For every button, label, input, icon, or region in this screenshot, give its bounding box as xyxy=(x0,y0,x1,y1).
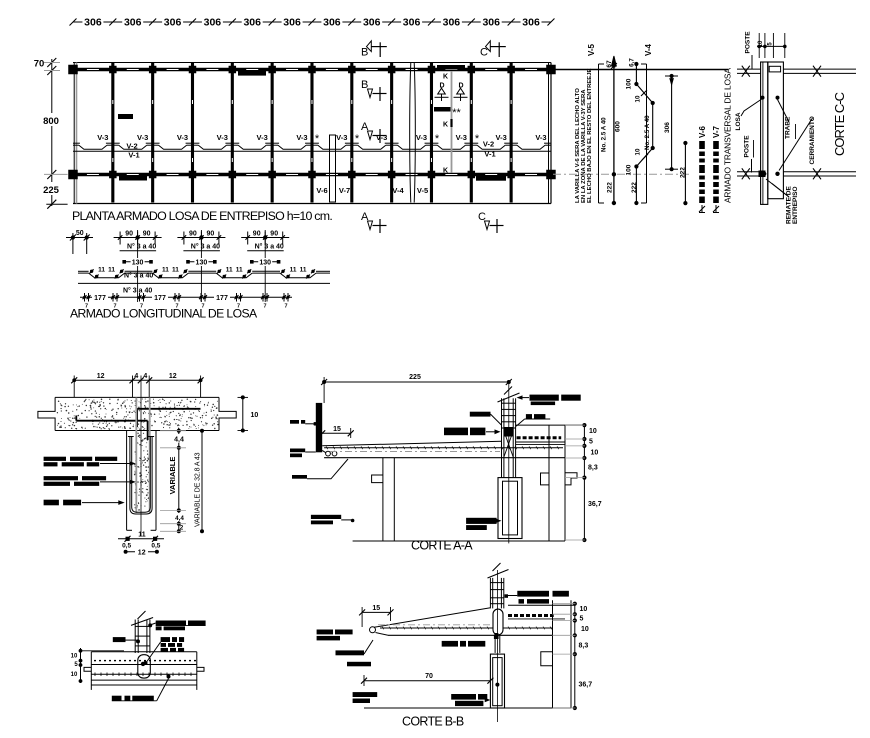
svg-text:V-3: V-3 xyxy=(376,133,387,142)
corte A-A center post xyxy=(498,387,520,459)
corte B-B left blocks xyxy=(317,630,378,704)
svg-text:LOSA: LOSA xyxy=(735,112,742,130)
svg-text:306: 306 xyxy=(482,17,500,29)
vertical break line xyxy=(410,63,416,203)
svg-text:*: * xyxy=(355,133,360,145)
svg-text:12: 12 xyxy=(169,373,177,380)
svg-text:V-1: V-1 xyxy=(484,150,495,159)
svg-text:36,7: 36,7 xyxy=(588,501,602,508)
dim 10 slab depth xyxy=(238,395,259,432)
svg-text:306: 306 xyxy=(522,17,540,29)
post detail left dims xyxy=(71,648,124,683)
corte B-B dim 15 xyxy=(359,605,393,627)
svg-text:N° 3 a 40: N° 3 a 40 xyxy=(255,243,284,251)
post detail bottom blocks xyxy=(112,675,171,701)
svg-text:EL LECHO BAJO EN EL RESTO DEL: EL LECHO BAJO EN EL RESTO DEL ENTREEJE xyxy=(587,69,593,203)
svg-text:5: 5 xyxy=(580,616,584,623)
svg-text:V-2: V-2 xyxy=(483,140,494,149)
svg-text:306: 306 xyxy=(283,17,301,29)
svg-text:V-6: V-6 xyxy=(316,186,327,195)
svg-text:V-3: V-3 xyxy=(336,133,347,142)
svg-text:PLANTA ARMADO LOSA DE ENTREPIS: PLANTA ARMADO LOSA DE ENTREPISO h=10 cm. xyxy=(72,209,332,223)
V-4 bent bar elevation xyxy=(626,43,655,205)
svg-text:4,4: 4,4 xyxy=(175,515,184,522)
svg-text:V-4: V-4 xyxy=(392,186,404,195)
corte C-C leader labels xyxy=(735,96,816,224)
svg-text:V-4: V-4 xyxy=(644,43,653,56)
svg-text:4: 4 xyxy=(134,373,138,380)
rebar bar top bay10 xyxy=(437,65,465,70)
corte A-A annotation blocks xyxy=(444,395,581,436)
svg-text:V-1: V-1 xyxy=(128,151,139,160)
V-5 bar elevation xyxy=(587,43,622,205)
svg-text:306: 306 xyxy=(124,17,142,29)
svg-text:306: 306 xyxy=(363,17,381,29)
svg-text:177: 177 xyxy=(154,295,166,302)
svg-text:306: 306 xyxy=(323,17,341,29)
post above slab xyxy=(131,611,153,653)
text block group 1 with arrow xyxy=(44,457,136,467)
svg-text:7: 7 xyxy=(284,304,287,310)
top dimension line 306 x12 xyxy=(70,17,555,29)
svg-text:10: 10 xyxy=(71,654,78,660)
svg-text:*: * xyxy=(435,133,440,145)
V-6 V-7 V-4 V-5 labels xyxy=(316,186,428,195)
svg-text:90: 90 xyxy=(143,231,151,238)
svg-text:10: 10 xyxy=(251,412,259,419)
svg-text:No. 2.5 A 40: No. 2.5 A 40 xyxy=(601,117,608,152)
svg-text:CORTE A-A: CORTE A-A xyxy=(411,539,473,553)
svg-text:6,7: 6,7 xyxy=(629,58,636,67)
svg-text:0,5: 0,5 xyxy=(122,543,131,550)
corte B-B bottom line xyxy=(364,707,571,709)
svg-text:7: 7 xyxy=(263,304,266,310)
svg-text:V-3: V-3 xyxy=(416,133,427,142)
svg-text:V-3: V-3 xyxy=(535,133,546,142)
svg-text:V-5: V-5 xyxy=(417,186,428,195)
svg-text:90: 90 xyxy=(189,231,197,238)
svg-text:CORTE C-C: CORTE C-C xyxy=(832,92,847,156)
top and bottom beams xyxy=(70,70,553,175)
svg-text:N° 3 a 40: N° 3 a 40 xyxy=(124,272,153,280)
corte B-B post top blocks xyxy=(505,591,569,604)
corte B-B sloped slab xyxy=(370,608,553,636)
svg-text:15: 15 xyxy=(333,426,341,433)
svg-text:B: B xyxy=(361,47,368,59)
corte A-A slab lines xyxy=(322,441,565,457)
svg-text:130: 130 xyxy=(132,260,144,267)
svg-text:11: 11 xyxy=(300,267,307,274)
svg-text:**: ** xyxy=(452,107,461,119)
svg-text:POSTE: POSTE xyxy=(745,31,752,54)
corte A-A dim 15 xyxy=(319,426,354,438)
svg-text:POSTE: POSTE xyxy=(744,135,751,158)
rebar bar top bay6 xyxy=(238,70,266,75)
svg-text:11: 11 xyxy=(226,267,233,274)
svg-text:12: 12 xyxy=(97,373,105,380)
svg-text:10: 10 xyxy=(71,672,78,678)
svg-text:0,5: 0,5 xyxy=(151,543,160,550)
post detail top-right blocks xyxy=(148,621,205,631)
narrow beam rectangle xyxy=(330,135,336,202)
column node squares xyxy=(68,65,555,180)
section marker C top xyxy=(480,41,506,59)
corte A-A dim 225 xyxy=(321,374,512,403)
V-6 dashed bar xyxy=(698,125,707,212)
post through slab stadium xyxy=(138,655,151,678)
section marker B top xyxy=(361,41,387,59)
T-detail top dims 12/4/4/12 xyxy=(71,373,203,397)
svg-text:V-3: V-3 xyxy=(456,133,467,142)
svg-text:*: * xyxy=(475,133,480,145)
dim row 177 xyxy=(80,293,292,310)
V-7 dashed bar xyxy=(712,125,721,212)
svg-text:V-3: V-3 xyxy=(97,133,108,142)
corte B-B parapet right xyxy=(508,605,575,619)
corte B-B center blocks xyxy=(442,641,491,706)
rebar bar mid bay10 xyxy=(434,107,451,112)
corte A-A bottom blocks xyxy=(311,515,502,530)
section marker B inside xyxy=(361,79,387,101)
svg-text:N° 3 a 40: N° 3 a 40 xyxy=(127,243,156,251)
svg-text:10: 10 xyxy=(758,40,764,47)
corte A-A left wall xyxy=(372,458,395,541)
svg-text:V-7: V-7 xyxy=(712,125,721,138)
corte C-C top dims POSTE 10 5 xyxy=(745,31,787,69)
post detail slab layers xyxy=(84,652,204,690)
svg-text:225: 225 xyxy=(43,185,60,196)
svg-text:CERRAMIENTO: CERRAMIENTO xyxy=(809,116,816,164)
rib bottom dims 0.5/11/0.5/12 xyxy=(118,532,164,557)
dimension 222 vertical xyxy=(680,141,688,205)
svg-text:V-3: V-3 xyxy=(137,133,148,142)
post detail left block xyxy=(113,637,140,643)
svg-text:130: 130 xyxy=(259,260,271,267)
svg-text:15: 15 xyxy=(372,605,380,612)
svg-text:306: 306 xyxy=(204,17,222,29)
dim VARIABLE DE 32.8 A 43 xyxy=(195,429,205,534)
V-2 V-1 labels left xyxy=(126,142,139,160)
dim 50 detail xyxy=(66,230,93,254)
svg-text:90: 90 xyxy=(207,231,215,238)
svg-text:10: 10 xyxy=(580,606,588,613)
svg-text:222: 222 xyxy=(631,182,638,193)
svg-text:V-7: V-7 xyxy=(339,186,350,195)
corte B-B post top xyxy=(488,563,509,608)
section marker D left xyxy=(435,83,449,102)
corte C-C rails and break marks xyxy=(737,66,856,180)
svg-text:90: 90 xyxy=(253,231,261,238)
centerline extension right xyxy=(553,173,690,175)
svg-text:K: K xyxy=(443,122,448,129)
svg-text:No. 2.5 A 40: No. 2.5 A 40 xyxy=(644,115,651,150)
svg-text:V-3: V-3 xyxy=(177,133,188,142)
svg-text:ENTREPISO: ENTREPISO xyxy=(792,186,799,224)
V-2 V-1 labels right xyxy=(483,140,496,159)
svg-text:4,4: 4,4 xyxy=(174,437,184,444)
asterisk marks xyxy=(315,133,480,145)
svg-text:36,7: 36,7 xyxy=(579,682,593,689)
concrete stipple texture xyxy=(57,398,219,510)
svg-text:177: 177 xyxy=(94,295,106,302)
svg-text:100: 100 xyxy=(626,164,633,175)
svg-text:306: 306 xyxy=(84,17,102,29)
corte A-A left black bar xyxy=(316,403,322,452)
svg-text:225: 225 xyxy=(409,374,421,381)
svg-text:11: 11 xyxy=(172,267,179,274)
corte B-B post capital and footing xyxy=(490,570,504,722)
svg-text:10: 10 xyxy=(589,428,597,435)
corte A-A bottom line xyxy=(353,540,565,542)
longitudinal group 1 dims 90/130 xyxy=(114,230,162,302)
svg-text:306: 306 xyxy=(403,17,421,29)
svg-text:V-6: V-6 xyxy=(698,125,707,138)
svg-text:ARMADO LONGITUDINAL DE LOSA: ARMADO LONGITUDINAL DE LOSA xyxy=(70,307,258,321)
svg-text:V-5: V-5 xyxy=(587,43,596,56)
top rebar with hook xyxy=(137,409,200,427)
rib beam with stirrup xyxy=(127,376,156,537)
left dimension chain 70/800/225 xyxy=(34,58,68,209)
svg-text:70: 70 xyxy=(425,673,433,680)
corte B-B right wall xyxy=(541,600,571,708)
svg-text:306: 306 xyxy=(243,17,261,29)
svg-text:70: 70 xyxy=(34,59,45,70)
section marker D right xyxy=(454,83,468,102)
note text rotated 3 lines xyxy=(575,69,593,203)
svg-text:67: 67 xyxy=(606,60,613,68)
dim chain 4.4/VARIABLE/4.4/2 xyxy=(160,428,186,533)
svg-text:V-3: V-3 xyxy=(296,133,307,142)
dimension 306 vertical xyxy=(664,74,678,171)
svg-text:8,3: 8,3 xyxy=(579,643,589,650)
svg-text:V-3: V-3 xyxy=(217,133,228,142)
svg-text:VARIABLE DE 32.8 A 43: VARIABLE DE 32.8 A 43 xyxy=(195,452,202,527)
svg-text:8,3: 8,3 xyxy=(588,465,598,472)
svg-text:11: 11 xyxy=(108,267,115,274)
svg-text:222: 222 xyxy=(680,167,687,178)
svg-text:10: 10 xyxy=(635,148,642,155)
svg-text:5: 5 xyxy=(589,439,593,446)
svg-text:11: 11 xyxy=(138,532,146,539)
svg-text:10: 10 xyxy=(591,450,599,457)
svg-text:177: 177 xyxy=(216,295,228,302)
section marker A bottom xyxy=(361,211,387,233)
slab decking profile strip V-1/V-2/V-3 xyxy=(73,143,551,151)
corte A-A left text blocks xyxy=(290,420,348,479)
svg-text:ARMADO TRANSVERSAL DE LOSA: ARMADO TRANSVERSAL DE LOSA xyxy=(723,68,733,203)
corte C-C slab and trabe section xyxy=(761,62,784,204)
svg-text:V-2: V-2 xyxy=(126,142,137,151)
corte B-B right dim chain xyxy=(553,602,593,711)
V-3 labels xyxy=(97,133,546,142)
longitudinal group 2 dims 90/130 xyxy=(177,230,225,302)
svg-text:10: 10 xyxy=(635,95,642,102)
svg-text:800: 800 xyxy=(43,116,59,127)
svg-text:600: 600 xyxy=(615,121,622,132)
svg-text:306: 306 xyxy=(443,17,461,29)
svg-text:90: 90 xyxy=(125,231,133,238)
T-detail slab band xyxy=(38,397,236,430)
svg-text:K: K xyxy=(443,74,448,81)
longitudinal profile with 11 marks xyxy=(78,267,330,295)
text block group 2 with arrow xyxy=(44,476,136,486)
rebar bar below beam left xyxy=(119,176,147,181)
corte A-A right dim chain xyxy=(565,423,602,542)
svg-text:11: 11 xyxy=(162,267,169,274)
svg-text:V-3: V-3 xyxy=(495,133,506,142)
svg-text:130: 130 xyxy=(196,260,208,267)
svg-text:2: 2 xyxy=(180,525,184,532)
corte A-A post below and footing xyxy=(498,382,522,543)
svg-text:VARIABLE: VARIABLE xyxy=(168,457,177,495)
plan slab outline xyxy=(73,63,551,204)
beam line extension right xyxy=(553,69,728,71)
svg-text:100: 100 xyxy=(626,78,633,89)
svg-text:306: 306 xyxy=(664,122,671,133)
corte A-A parapet and dashed bar xyxy=(516,425,585,445)
svg-text:50: 50 xyxy=(76,230,84,237)
svg-text:CORTE B-B: CORTE B-B xyxy=(402,715,464,729)
rebar bar below beam right xyxy=(476,176,506,181)
mid rebar with hook xyxy=(76,416,147,441)
svg-text:*: * xyxy=(315,133,320,145)
section marker C bottom xyxy=(478,211,504,233)
svg-text:N° 3 a 40: N° 3 a 40 xyxy=(191,243,220,251)
svg-text:10: 10 xyxy=(581,626,589,633)
svg-text:4: 4 xyxy=(143,373,147,380)
section marker A inside xyxy=(361,121,387,143)
post detail middle blocks xyxy=(144,637,185,665)
svg-text:N° 3 a 40: N° 3 a 40 xyxy=(123,287,152,295)
vertical beams grid xyxy=(113,63,511,203)
svg-text:12: 12 xyxy=(138,550,146,557)
gray post line with K labels xyxy=(443,71,452,175)
svg-text:11: 11 xyxy=(236,267,243,274)
svg-text:222: 222 xyxy=(607,182,614,193)
svg-text:11: 11 xyxy=(98,267,105,274)
text block group 3 with arrow xyxy=(44,500,125,506)
rebar bar bay1 xyxy=(118,114,133,119)
svg-text:V-3: V-3 xyxy=(257,133,268,142)
svg-text:K: K xyxy=(443,168,448,175)
svg-text:11: 11 xyxy=(290,267,297,274)
svg-text:90: 90 xyxy=(270,231,278,238)
longitudinal group 3 dims 90/130 xyxy=(241,230,289,302)
corte B-B dim 70 xyxy=(361,673,493,686)
svg-text:306: 306 xyxy=(164,17,182,29)
corte A-A right wall xyxy=(541,425,578,541)
